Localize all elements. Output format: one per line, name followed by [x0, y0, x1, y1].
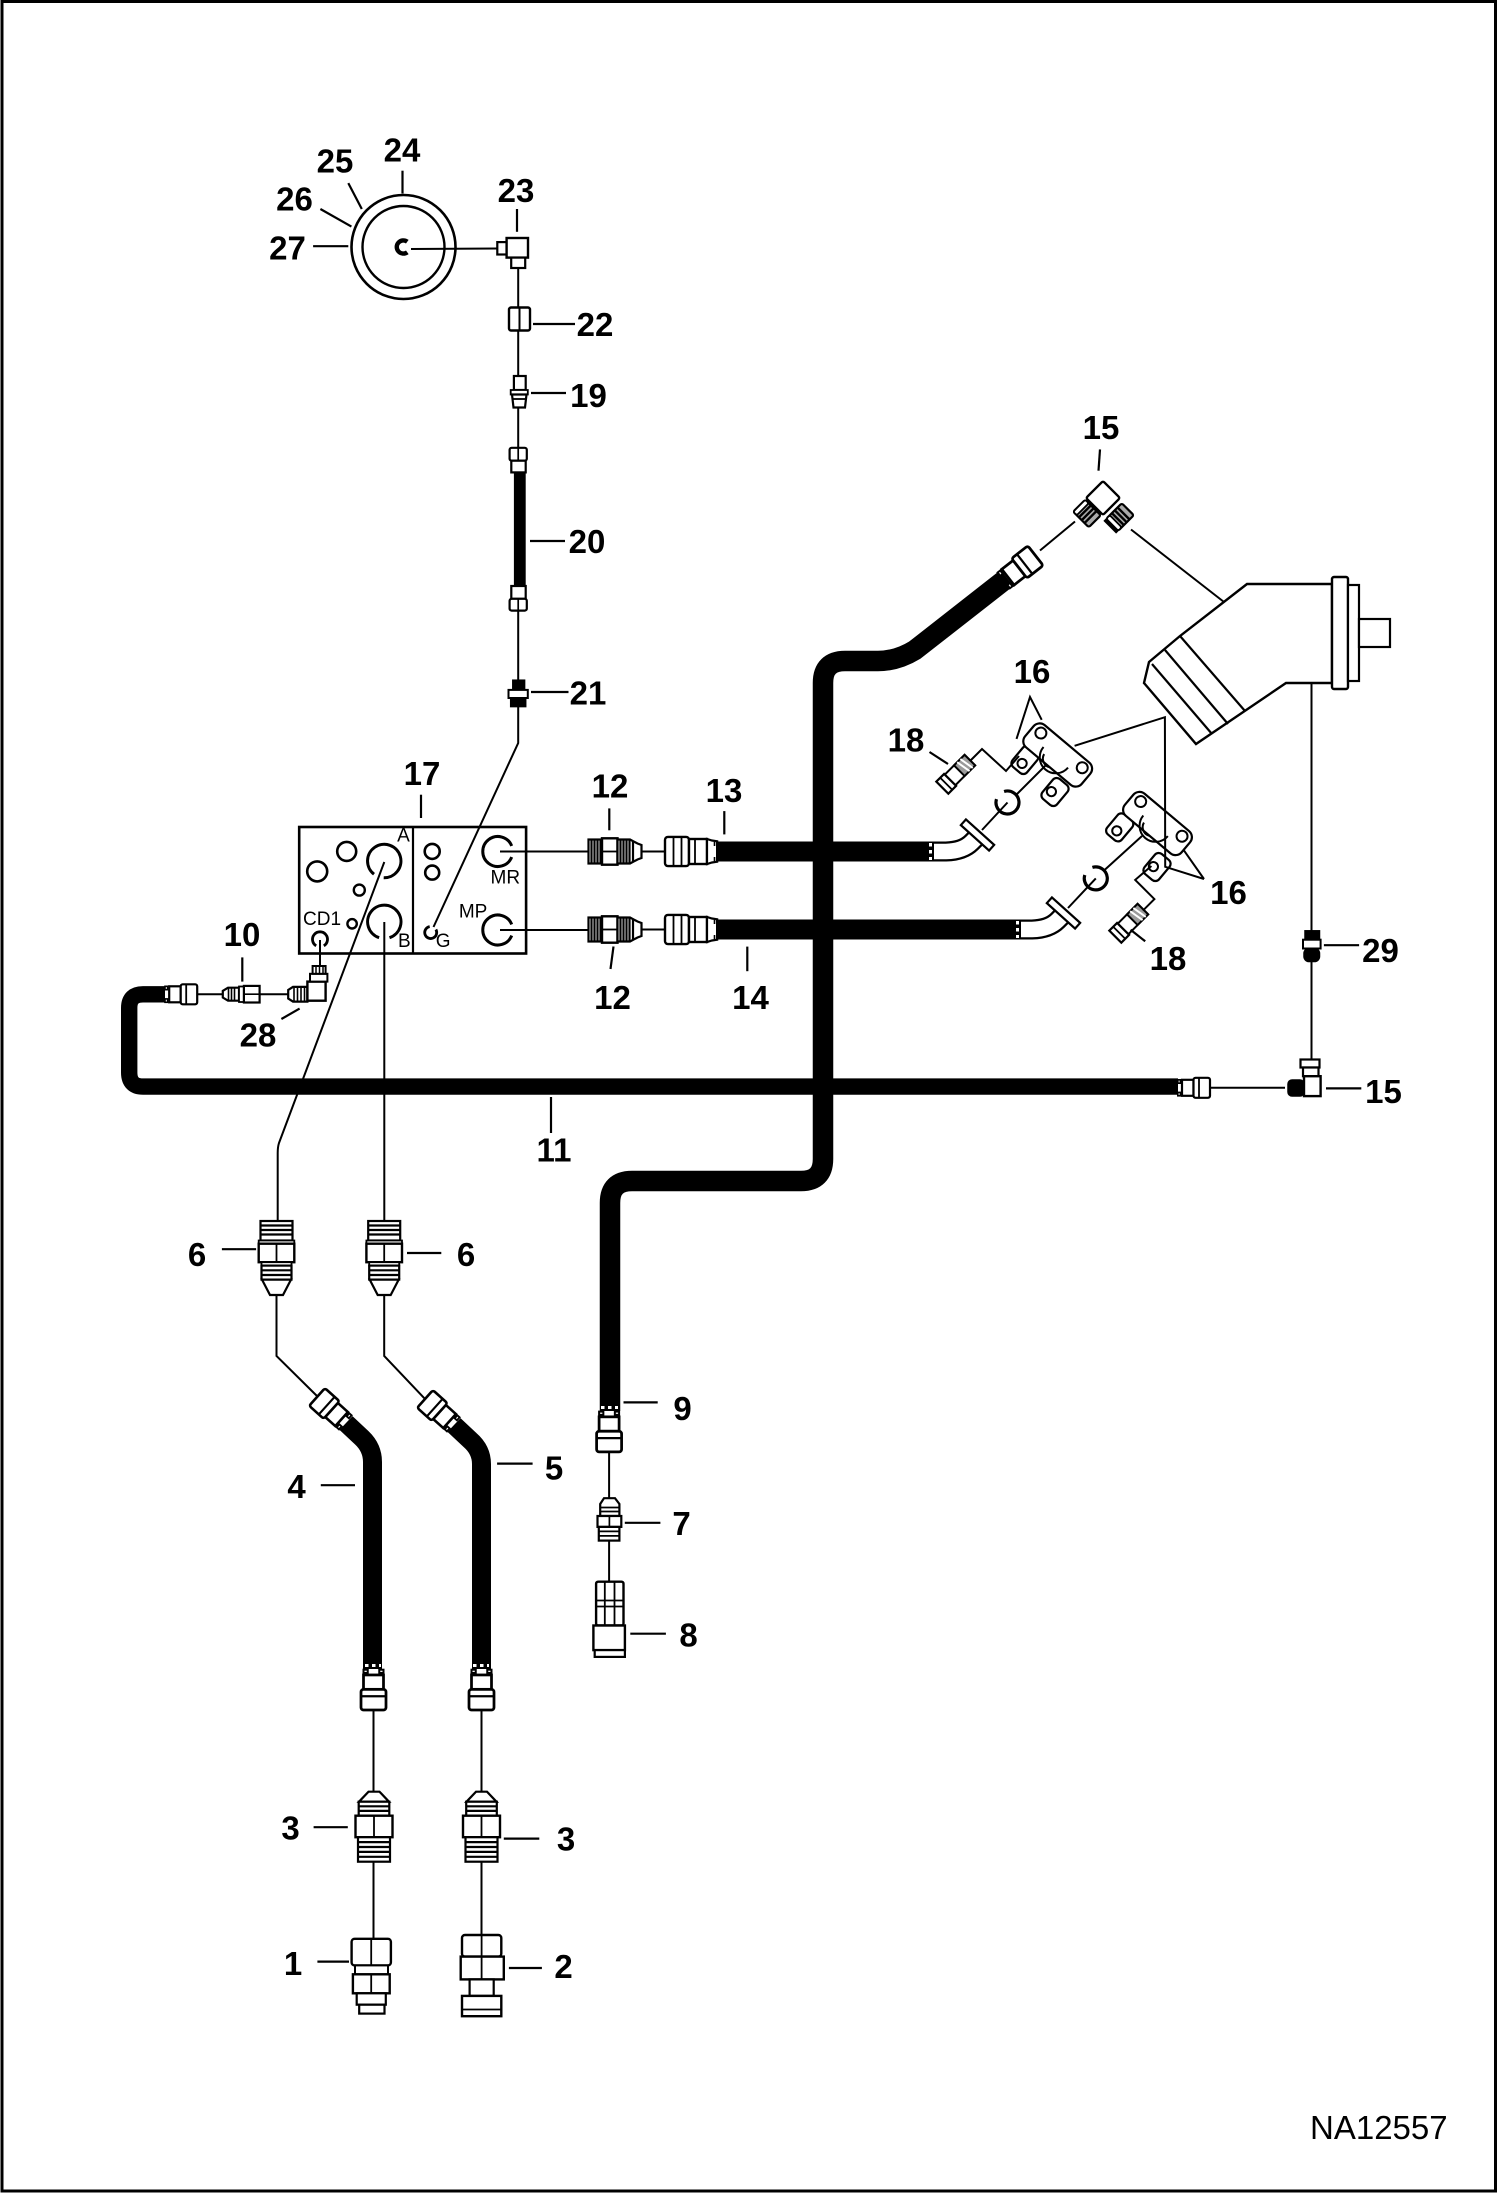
leader 14 [746, 947, 748, 972]
bolt 18 upper guide line [971, 749, 1019, 771]
hose 14 elbow pipe [1017, 913, 1065, 930]
hose 14 pipe flange [1047, 897, 1080, 928]
svg-text:G: G [436, 931, 451, 952]
hose 14 end fitting [665, 915, 717, 944]
port G [425, 927, 437, 939]
manifold hole 3 [354, 885, 365, 896]
svg-text:23: 23 [498, 172, 535, 209]
port CD1 [313, 932, 328, 946]
leader 28 [281, 1009, 299, 1019]
clamp 16 upper main plate [1017, 720, 1095, 793]
svg-text:MP: MP [459, 902, 488, 923]
wire 21 to port G [434, 707, 519, 927]
hose 9 end dashes [601, 1406, 618, 1409]
wire 22 to 19 [517, 331, 519, 377]
hose 4 bottom fitting [361, 1670, 386, 1710]
svg-text:27: 27 [269, 229, 306, 266]
pipe 14 axis line [1068, 836, 1142, 908]
wire fitting 10 to elbow 28 [260, 993, 290, 995]
fitting 19 [511, 376, 528, 408]
leader 12 lower [611, 947, 614, 970]
svg-text:20: 20 [569, 523, 606, 560]
svg-text:25: 25 [317, 142, 354, 179]
svg-text:3: 3 [281, 1810, 299, 1847]
svg-text:MR: MR [491, 867, 521, 888]
svg-text:18: 18 [1150, 940, 1187, 977]
svg-text:28: 28 [240, 1017, 277, 1054]
fitting 12 lower [589, 916, 642, 942]
wire elbow 15 to motor [1131, 530, 1224, 603]
hose 9 top fitting [996, 546, 1043, 590]
port B [368, 905, 401, 938]
hose 20 lower nut [510, 586, 527, 611]
leader 22 [533, 323, 575, 325]
leader 13 [723, 811, 725, 834]
bolt 18 upper [936, 754, 976, 794]
motor barrel band 1 [1180, 636, 1245, 711]
svg-text:6: 6 [457, 1236, 475, 1273]
hose 11 right end fitting [1178, 1078, 1210, 1098]
svg-text:CD1: CD1 [303, 909, 341, 930]
svg-text:15: 15 [1365, 1073, 1402, 1110]
svg-text:15: 15 [1083, 409, 1120, 446]
clamp 16 lower main plate [1117, 789, 1195, 862]
gauge inner ring [363, 206, 445, 288]
wire port A to fitting 6 left [278, 862, 385, 1221]
svg-text:26: 26 [276, 180, 313, 217]
fitting 21 [509, 680, 528, 706]
wire 19 to 20 [517, 408, 519, 448]
svg-text:B: B [398, 931, 411, 952]
wire 29 to elbow 15 right [1311, 962, 1313, 1060]
wire 12 to hose 14 end [642, 929, 666, 931]
wire hose 11 end to elbow 15 [1210, 1087, 1285, 1089]
leader 3 left [314, 1826, 348, 1828]
leader 25 [348, 183, 362, 209]
manifold hole 4 [347, 919, 356, 928]
svg-text:4: 4 [287, 1468, 306, 1505]
hydraulic motor body [1144, 584, 1332, 744]
wire hose 5 to fitting 3 right [481, 1710, 483, 1792]
hose 14 [716, 920, 1021, 940]
motor barrel band 3 [1152, 664, 1212, 734]
svg-text:16: 16 [1014, 653, 1051, 690]
leader 29 [1324, 944, 1359, 946]
hose 5 top fitting [417, 1390, 461, 1433]
elbow fitting 15 top [1073, 481, 1134, 532]
hose 9 [610, 578, 1007, 1411]
svg-text:10: 10 [224, 916, 261, 953]
wire fitting 6 right to hose 5 [384, 1295, 426, 1400]
motor shaft [1359, 619, 1390, 647]
svg-text:7: 7 [672, 1505, 690, 1542]
hose 5 end dashes [473, 1664, 489, 1667]
leader 6 right [407, 1252, 441, 1254]
svg-text:NA12557: NA12557 [1310, 2109, 1448, 2146]
svg-text:A: A [397, 826, 410, 847]
leader 16 lower long [1075, 717, 1204, 879]
wire fitting 3 left to coupler 1 [373, 1862, 375, 1939]
gauge center orifice 27 [397, 240, 408, 253]
leader 26 [320, 209, 351, 227]
leader 4 [321, 1484, 355, 1486]
coupler 2 [461, 1935, 504, 2016]
hose 4 [346, 1423, 373, 1669]
leader 16 lower short [1184, 850, 1204, 879]
hose 13 end fitting [665, 837, 717, 866]
clamp 16 upper lower plate [1039, 776, 1070, 808]
leader 5 [497, 1462, 532, 1464]
leader 7 [625, 1522, 661, 1524]
svg-text:24: 24 [384, 131, 421, 168]
svg-text:9: 9 [673, 1390, 691, 1427]
port MP [483, 915, 512, 945]
wire hose 9 to fitting 7 [608, 1452, 610, 1498]
wire MR to fitting 12 [500, 851, 589, 853]
fitting 6 right [366, 1221, 402, 1295]
leader 21 [531, 691, 569, 693]
leader 11 [550, 1097, 552, 1133]
svg-text:14: 14 [732, 979, 769, 1016]
svg-text:16: 16 [1210, 874, 1247, 911]
hose 13 end dashes [929, 843, 932, 860]
wire fitting 3 right to coupler 2 [481, 1862, 483, 1935]
wire hose 4 to fitting 3 left [373, 1710, 375, 1792]
bolt 18 lower [1109, 903, 1149, 943]
pipe 13 axis line [982, 762, 1049, 830]
wire MP to fitting 12 [500, 929, 589, 931]
wire CD1 to elbow 28 [319, 940, 321, 966]
fitting 3 left [356, 1792, 393, 1862]
manifold hole 5 [425, 844, 440, 859]
svg-text:2: 2 [554, 1948, 572, 1985]
clamp 16 upper small plate [1009, 744, 1040, 776]
fitting 10 [223, 986, 260, 1003]
leader 19 [531, 392, 566, 394]
coupler 8 [593, 1582, 625, 1657]
wire hose 11 to fitting 10 [197, 993, 226, 995]
hose 5 [454, 1425, 482, 1669]
svg-text:17: 17 [404, 755, 441, 792]
hose 13 pipe flange [961, 819, 994, 850]
wire gauge to fitting 23 [411, 248, 497, 251]
manifold hole 2 [307, 861, 327, 881]
svg-text:12: 12 [592, 768, 629, 805]
leader 18 lower [1131, 930, 1146, 942]
hose 4 end dashes [365, 1664, 381, 1667]
leader 2 [509, 1967, 542, 1969]
hose 14 end dashes [1016, 921, 1019, 938]
fitting 12 upper [589, 838, 642, 864]
svg-text:6: 6 [188, 1236, 206, 1273]
leader 18 upper [930, 752, 949, 764]
motor barrel band 2 [1165, 650, 1228, 724]
elbow fitting 15 right [1288, 1060, 1321, 1097]
wire 23 to 22 [517, 268, 519, 308]
sleeve 22 [509, 308, 530, 331]
leader 9 [624, 1401, 658, 1403]
svg-text:22: 22 [577, 306, 614, 343]
wire motor to fitting 29 [1311, 684, 1313, 931]
wire port B to fitting 6 right [383, 922, 385, 1221]
fitting 6 left [259, 1221, 295, 1295]
svg-text:19: 19 [570, 377, 607, 414]
wire 20 to 21 [517, 611, 519, 680]
manifold divider [412, 827, 414, 954]
svg-text:21: 21 [570, 675, 607, 712]
wire elbow 15 to hose 9 fitting [1040, 522, 1075, 551]
motor rear hub [1348, 585, 1359, 681]
hose 13 [716, 842, 934, 862]
coupler 1 [352, 1939, 391, 2014]
hose 9 bottom fitting [597, 1412, 622, 1452]
leader 8 [630, 1633, 666, 1635]
leader 6 left [222, 1248, 256, 1250]
manifold block 17 [299, 827, 526, 954]
svg-text:3: 3 [557, 1821, 575, 1858]
manifold hole 1 [337, 842, 356, 861]
leader 12 upper [608, 808, 610, 830]
fitting 23 elbow [497, 238, 528, 268]
hose 11 [129, 994, 1178, 1086]
svg-text:29: 29 [1362, 932, 1399, 969]
port MR [483, 837, 512, 867]
elbow fitting 28 [288, 966, 327, 1002]
fitting 29 [1303, 931, 1321, 962]
fitting 3 right [463, 1792, 500, 1862]
leader 23 [516, 209, 518, 232]
hose 20 [514, 472, 526, 586]
hose 20 upper nut [510, 448, 527, 473]
svg-text:5: 5 [545, 1450, 563, 1487]
bolt 18 lower guide line [1135, 866, 1154, 911]
leader 10 [241, 957, 243, 981]
wire 12 to hose 13 end [642, 851, 666, 853]
leader 1 [317, 1960, 349, 1962]
snap ring lower [1084, 867, 1107, 890]
svg-text:11: 11 [537, 1132, 572, 1169]
fitting 7 [598, 1498, 622, 1540]
svg-text:13: 13 [706, 772, 743, 809]
hose 5 bottom fitting [469, 1670, 494, 1710]
svg-text:8: 8 [679, 1617, 697, 1654]
gauge 24/25/26/27 outer ring [352, 195, 456, 299]
leader 20 [530, 540, 565, 542]
wire fitting 6 left to hose 4 [277, 1295, 319, 1397]
snap ring upper [996, 791, 1019, 814]
leader 24 [401, 171, 403, 194]
leader 27 [313, 245, 348, 247]
hose 13 elbow pipe [930, 835, 979, 852]
leader 16 upper [1017, 697, 1042, 739]
clamp 16 lower bottom plate [1141, 851, 1172, 883]
hose 4 top fitting [309, 1388, 353, 1431]
svg-text:18: 18 [888, 722, 925, 759]
manifold hole 6 [425, 866, 439, 880]
port A [368, 844, 401, 877]
leader 15 right [1326, 1087, 1361, 1089]
clamp 16 lower left plate [1104, 811, 1135, 843]
svg-text:12: 12 [594, 979, 631, 1016]
leader 15 top [1099, 449, 1101, 470]
leader 17 [420, 795, 422, 818]
svg-text:1: 1 [284, 1945, 302, 1982]
motor flange plate [1332, 577, 1348, 689]
hose 11 left end fitting [165, 984, 197, 1004]
wire fitting 7 to coupler 8 [608, 1541, 610, 1582]
leader 3 right [504, 1837, 540, 1839]
